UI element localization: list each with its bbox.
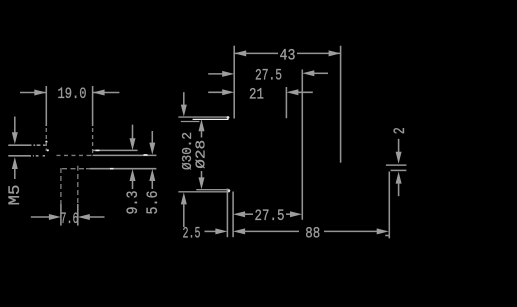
dimension 5.6 lower arrow: [149, 169, 155, 181]
dimension 19.0 arrowhead left-pointing: [93, 90, 105, 96]
dimension 27.5 bottom line right: [286, 213, 292, 215]
extension line below boss x227.4: [226, 189, 228, 238]
white highlight dash on y155 line: [144, 154, 148, 156]
boss inner top edge (diam 28): [181, 121, 200, 123]
dimension 43 extension line left: [233, 46, 235, 119]
svg-text:2: 2: [391, 127, 409, 134]
upper collar edge line y150: [93, 149, 138, 151]
svg-text:2.5: 2.5: [183, 224, 201, 242]
svg-text:M5: M5: [6, 185, 24, 206]
svg-text:88: 88: [305, 224, 320, 242]
dimension 2.5 left arrow: [205, 230, 218, 232]
hidden extension line x77.8: [77, 166, 79, 203]
dimension dia28 bottom arrow: [201, 171, 203, 180]
dimension 2 bottom arrow: [396, 172, 402, 184]
part edge solid right at y155: [93, 154, 157, 156]
extension line below boss x233.1: [232, 192, 234, 238]
dimension M5 upper arrow: [14, 117, 16, 134]
dimension 27.5 top left arrow: [208, 73, 224, 75]
dimension 88 right arrowhead: [377, 228, 389, 234]
svg-text:27.5: 27.5: [255, 67, 282, 85]
dimension 88 line: [243, 230, 378, 232]
svg-text:9.3: 9.3: [124, 191, 142, 215]
hidden edge dashes mid: [57, 154, 92, 156]
small tick on handle edge: [385, 235, 389, 237]
dimension 43 line: [234, 52, 340, 54]
boss outer bottom edge (diam 30.2): [178, 191, 229, 193]
extension line x302.3: [301, 70, 303, 220]
dimension 27.5 bottom line left: [243, 213, 253, 215]
dimension 27.5 bottom right arrowhead: [290, 211, 302, 217]
hidden extension line x60.9: [60, 168, 62, 204]
dimension dia30.2 top arrow: [183, 92, 185, 107]
dimension 5.6 upper arrow: [151, 131, 153, 144]
stud top edge line: [8, 144, 45, 146]
dimension 9.3 lower arrow: [130, 169, 136, 181]
dimension 2.5 right arrow / 88 left arrow: [233, 228, 245, 234]
extension line x286.4: [285, 87, 287, 118]
svg-text:7.6: 7.6: [61, 210, 79, 228]
stud bottom edge line (continues right as part edge): [8, 155, 45, 157]
svg-text:43: 43: [280, 47, 296, 65]
white highlight dash on y150 line: [96, 149, 100, 151]
svg-text:5.6: 5.6: [144, 191, 162, 215]
dimension 21 left arrow: [208, 91, 224, 93]
svg-text:27.5: 27.5: [255, 207, 285, 225]
corner vertex dot bottom: [227, 189, 230, 192]
dimension 9.3 upper arrow: [132, 125, 134, 140]
corner vertex dot top: [227, 116, 230, 119]
dimension 21 right arrow: [296, 91, 313, 93]
dimension 7.6 right arrow: [88, 216, 105, 218]
svg-text:Ø28: Ø28: [193, 140, 209, 169]
svg-text:21: 21: [249, 86, 264, 104]
boss highlighted edge (white): [193, 118, 229, 120]
lower collar edge line y168.7 solid: [90, 168, 156, 170]
handle right edge extension line: [388, 172, 390, 239]
boss outer top edge (diam 30.2): [178, 116, 228, 118]
vertex dot stud top: [45, 141, 47, 143]
handle end top edge: [386, 164, 407, 166]
dimension 27.5 bottom left arrowhead: [233, 211, 245, 217]
dimension 43 left arrowhead: [234, 50, 246, 56]
handle end bottom edge: [391, 169, 407, 171]
dimension 27.5 top right arrow: [312, 72, 328, 74]
extension line x46.3: [45, 86, 47, 126]
boss inner bottom edge (diam 28): [196, 189, 228, 191]
lower collar edge line y168.7 dashed left: [62, 168, 90, 170]
white highlight dash on y168.7 line: [110, 168, 114, 170]
dimension 19.0 arrowhead right-pointing: [34, 90, 46, 96]
dimension 7.6 left arrow: [31, 216, 51, 218]
extension line x92.6: [92, 86, 94, 126]
svg-text:19.0: 19.0: [58, 85, 87, 103]
dimension dia28 top arrow: [199, 119, 205, 131]
dimension 2 top arrow: [398, 139, 400, 154]
dimension 19.0 line: [20, 92, 119, 94]
dimension 43 right arrowhead: [329, 50, 341, 56]
dimension M5 lower arrow: [14, 169, 16, 180]
dimension dia30.2 bottom arrow: [181, 192, 187, 204]
vertex dot stud mid: [47, 149, 49, 151]
dimension 43 extension line right: [340, 46, 342, 163]
